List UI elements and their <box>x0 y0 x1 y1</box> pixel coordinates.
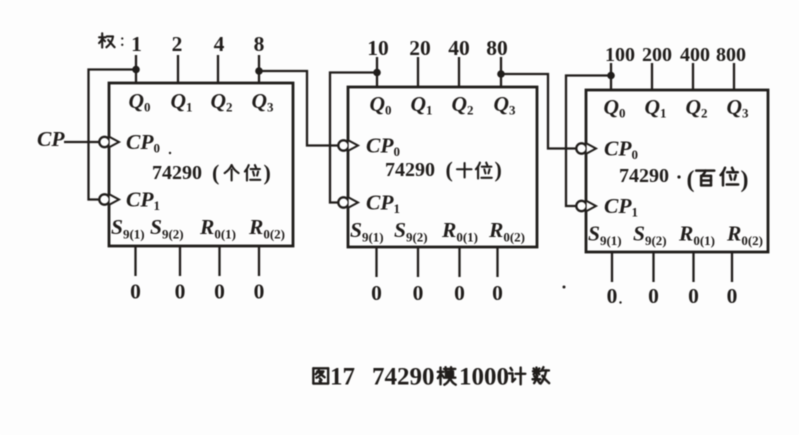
IC U1 74290 outline <box>109 83 293 246</box>
svg-text:(: ( <box>687 167 695 193</box>
IC U2 74290 outline <box>348 87 537 247</box>
clock bubble CP1 U3 <box>576 201 586 211</box>
svg-text:74290: 74290 <box>152 162 202 184</box>
svg-text:CP: CP <box>37 127 65 151</box>
pin stub Q3 top U3 <box>733 63 735 90</box>
svg-text:0: 0 <box>130 280 141 304</box>
svg-text:80: 80 <box>486 36 508 60</box>
svg-text:0: 0 <box>648 284 659 308</box>
pin stub R0(1) bottom U3 <box>692 252 694 282</box>
pin stub Q0 top U1 <box>135 55 137 83</box>
clock bubble CP0 U3 <box>576 143 586 153</box>
pin stub Q1 top U1 <box>177 55 179 83</box>
wire CP to CP0 of U1 <box>64 141 99 143</box>
speck <box>677 175 680 178</box>
svg-text:4: 4 <box>214 32 225 56</box>
pin stub Q2 top U1 <box>217 55 219 83</box>
wire Q0 U2 to CP1 U2 <box>330 73 377 203</box>
svg-text:(: ( <box>446 157 453 182</box>
pin stub Q0 top U2 <box>376 57 378 87</box>
pin stub Q3 top U1 <box>258 55 260 83</box>
pin stub R0(2) bottom U1 <box>258 246 260 276</box>
pin stub Q2 top U3 <box>692 63 694 90</box>
svg-text:): ) <box>495 157 502 182</box>
svg-text:40: 40 <box>448 36 470 60</box>
svg-text:(: ( <box>212 160 219 185</box>
wire Q3 U2 to CP0 U3 <box>501 74 576 149</box>
junction Q0 U3 <box>607 72 615 80</box>
pin stub Q3 top U2 <box>500 57 502 87</box>
pin stub R0(2) bottom U3 <box>731 252 733 282</box>
speck <box>619 301 621 303</box>
pin stub Q1 top U2 <box>417 57 419 87</box>
pin stub S9(1) bottom U1 <box>134 246 136 276</box>
svg-text:0: 0 <box>492 281 503 305</box>
junction Q0 U1 <box>132 66 140 74</box>
pin stub S9(1) bottom U2 <box>375 247 377 277</box>
pin stub R0(2) bottom U2 <box>496 247 498 277</box>
junction Q3 U1 <box>255 67 263 75</box>
wire Q0 U1 to CP1 U1 <box>89 70 137 200</box>
svg-text:8: 8 <box>254 32 265 56</box>
pin stub S9(2) bottom U3 <box>652 252 654 282</box>
svg-text:800: 800 <box>716 44 746 66</box>
svg-text:0: 0 <box>254 280 265 304</box>
svg-text:): ) <box>264 160 271 185</box>
svg-text:0: 0 <box>727 284 738 308</box>
pin stub Q0 top U3 <box>610 63 612 90</box>
label weight heading 权: <box>99 33 115 47</box>
svg-text:20: 20 <box>409 36 431 60</box>
speck <box>169 152 171 154</box>
svg-text:1: 1 <box>131 32 142 56</box>
pin stub Q2 top U2 <box>458 57 460 87</box>
pin stub S9(2) bottom U2 <box>417 247 419 277</box>
pin stub S9(2) bottom U1 <box>179 246 181 276</box>
pin stub Q1 top U3 <box>651 63 653 90</box>
svg-text:0: 0 <box>607 284 618 308</box>
svg-text:74290: 74290 <box>619 165 669 187</box>
svg-text:10: 10 <box>367 36 389 60</box>
wire Q3 U1 to CP0 U2 <box>259 71 338 146</box>
caption 图17 74290模1000计数 <box>313 368 328 383</box>
svg-text:1000: 1000 <box>459 364 509 391</box>
svg-text:100: 100 <box>605 44 635 66</box>
svg-text:0: 0 <box>214 280 225 304</box>
IC U3 74290 outline <box>586 90 768 252</box>
pin stub S9(1) bottom U3 <box>611 252 613 282</box>
svg-text:0: 0 <box>454 281 465 305</box>
svg-text:0: 0 <box>688 284 699 308</box>
svg-text:17: 17 <box>330 364 355 391</box>
svg-text:400: 400 <box>680 44 710 66</box>
speck <box>563 286 566 289</box>
junction Q0 U2 <box>373 69 381 77</box>
junction Q3 U2 <box>497 70 505 78</box>
wire Q0 U3 to CP1 U3 <box>566 76 611 207</box>
svg-text:74290: 74290 <box>372 364 435 391</box>
clock bubble CP0 U2 <box>338 140 348 150</box>
pin stub R0(1) bottom U2 <box>458 247 460 277</box>
pin stub R0(1) bottom U1 <box>218 246 220 276</box>
svg-text:74290: 74290 <box>385 159 435 181</box>
svg-text:200: 200 <box>642 44 672 66</box>
svg-text:): ) <box>741 167 749 193</box>
svg-text:0: 0 <box>175 280 186 304</box>
svg-text:2: 2 <box>172 32 183 56</box>
svg-text:0: 0 <box>413 281 424 305</box>
clock bubble CP1 U1 <box>99 194 109 204</box>
clock bubble CP0 U1 <box>99 137 109 147</box>
clock bubble CP1 U2 <box>338 197 348 207</box>
svg-text:0: 0 <box>371 281 382 305</box>
